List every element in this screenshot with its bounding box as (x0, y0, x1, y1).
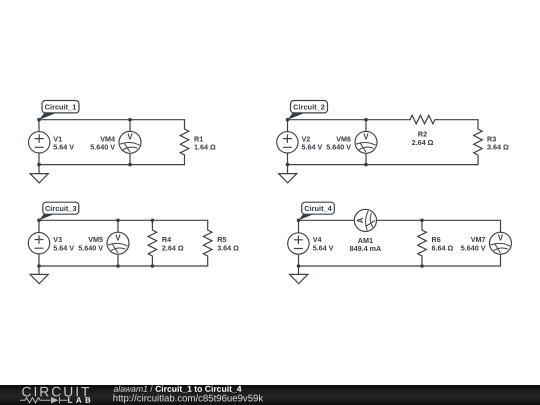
value label V4 5.64 V (313, 235, 334, 252)
value label VM7 5.640 V (461, 235, 486, 252)
wire top rail circuit 4 (left of AM1) (299, 219, 355, 221)
value label R2 2.64 Ω (412, 130, 434, 147)
value label VM6 5.640 V (326, 134, 351, 151)
voltmeter VM4 (119, 120, 141, 165)
callout label Circuit_3 (39, 202, 79, 220)
voltmeter VM6 (355, 120, 377, 165)
junction node dots circuit 3 (37, 219, 154, 268)
svg-text:3.64 Ω: 3.64 Ω (217, 243, 239, 252)
svg-text:6.64 Ω: 6.64 Ω (432, 243, 454, 252)
value label V3 5.64 V (53, 235, 74, 252)
svg-text:V: V (127, 133, 133, 142)
wire bottom rail circuit 4 (299, 265, 501, 267)
voltmeter VM7 (490, 220, 512, 266)
svg-text:Circuit_1: Circuit_1 (45, 103, 77, 112)
wire bottom rail circuit 3 (39, 265, 208, 267)
svg-text:LAB: LAB (68, 396, 94, 405)
svg-text:1.64 Ω: 1.64 Ω (194, 143, 216, 152)
wire bottom rail circuit 2 (288, 164, 479, 166)
svg-text:Circuit_3: Circuit_3 (45, 204, 77, 213)
voltage source V1 (29, 120, 50, 165)
ground circuit 4 (290, 266, 308, 284)
svg-text:5.64 V: 5.64 V (53, 143, 74, 152)
value label VM4 5.640 V (90, 134, 115, 151)
voltage source V2 (277, 120, 298, 165)
value label R6 6.64 Ω (432, 235, 454, 252)
svg-text:5.640 V: 5.640 V (326, 143, 351, 152)
svg-text:V: V (498, 234, 504, 243)
svg-text:V: V (363, 133, 369, 142)
ground circuit 1 (30, 165, 48, 183)
callout label Ciruit_4 (299, 202, 335, 220)
wire top rail circuit 3 (39, 219, 208, 221)
value label V2 5.64 V (302, 134, 323, 151)
footer bar (0, 385, 540, 405)
voltage source V4 (288, 220, 309, 266)
svg-text:5.640 V: 5.640 V (90, 143, 115, 152)
svg-text:5.640 V: 5.640 V (78, 243, 103, 252)
svg-text:2.64 Ω: 2.64 Ω (162, 243, 184, 252)
resistor R3 (474, 120, 483, 165)
resistor R1 (180, 120, 189, 165)
wire bottom rail circuit 1 (39, 164, 185, 166)
wire top rail circuit 1 (39, 119, 185, 121)
svg-text:3.64 Ω: 3.64 Ω (487, 143, 509, 152)
svg-text:5.64 V: 5.64 V (302, 143, 323, 152)
junction node dots circuit 2 (286, 118, 368, 167)
svg-text:Ciruit_4: Ciruit_4 (304, 204, 332, 213)
value label VM5 5.640 V (78, 235, 103, 252)
voltage source V3 (28, 220, 49, 266)
resistor R2 (410, 115, 435, 124)
ground circuit 2 (279, 165, 297, 183)
value label R1 1.64 Ω (194, 134, 216, 151)
svg-text:5.640 V: 5.640 V (461, 243, 486, 252)
resistor R6 (418, 220, 427, 266)
value label R4 2.64 Ω (162, 235, 184, 252)
CircuitLab logo resistor-diode glyph (20, 397, 68, 404)
voltmeter VM5 (107, 220, 129, 266)
value label V1 5.64 V (53, 134, 74, 151)
svg-text:Circuit_2: Circuit_2 (293, 103, 325, 112)
junction node dots circuit 1 (37, 118, 132, 167)
svg-text:5.64 V: 5.64 V (53, 243, 74, 252)
svg-text:A: A (356, 217, 365, 223)
value label AM1 849.4 mA (350, 236, 382, 253)
value label R3 3.64 Ω (487, 134, 509, 151)
wire top rail circuit 4 (right of AM1) (377, 219, 501, 221)
junction node dots circuit 4 (297, 219, 424, 268)
resistor R5 (203, 220, 212, 266)
svg-text:5.64 V: 5.64 V (313, 243, 334, 252)
svg-text:849.4 mA: 849.4 mA (350, 244, 382, 253)
callout label Circuit_1 (39, 101, 79, 120)
callout label Circuit_2 (288, 101, 328, 120)
wire top rail circuit 2 (left of R2) (288, 119, 411, 121)
svg-text:http://circuitlab.com/c85t96ue: http://circuitlab.com/c85t96ue9v59k (113, 393, 264, 404)
svg-text:2.64 Ω: 2.64 Ω (412, 138, 434, 147)
svg-text:V: V (115, 234, 121, 243)
resistor R4 (148, 220, 157, 266)
wire top rail circuit 2 (right of R2) (435, 119, 478, 121)
ground circuit 3 (30, 266, 48, 284)
ammeter AM1 (354, 209, 376, 231)
value label R5 3.64 Ω (217, 235, 239, 252)
